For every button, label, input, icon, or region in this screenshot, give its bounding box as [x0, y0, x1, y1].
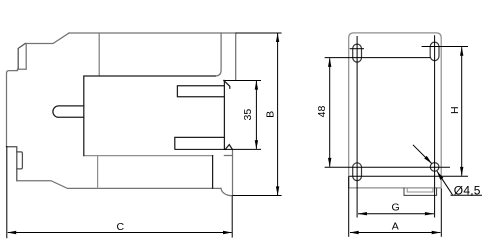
bottom-right fillet arc — [221, 188, 232, 195]
dim line H — [461, 47, 463, 176]
ext line 48 top / slot lower arc center — [325, 57, 431, 59]
ext line H bottom — [349, 175, 468, 177]
case edge right — [223, 81, 225, 150]
ext line C right — [231, 196, 233, 238]
ext line 48 bottom — [325, 166, 450, 168]
arrowheads 48 — [328, 58, 331, 67]
lower DIN clip tab — [7, 147, 17, 181]
lower terminal bent tip — [225, 145, 232, 150]
ext line A right — [440, 189, 442, 237]
svg-text:B: B — [264, 111, 276, 118]
leader arrowhead at hole — [424, 156, 432, 164]
right foot edge — [232, 150, 234, 195]
foot top edge — [224, 155, 232, 157]
centerline left column — [356, 36, 358, 218]
ext line H top — [422, 46, 468, 48]
upper terminal — [177, 86, 224, 97]
body top-left chamfer — [26, 33, 69, 43]
ext line B top — [236, 32, 282, 34]
body top edge — [69, 32, 236, 34]
ext line 35 top — [224, 80, 261, 82]
arrowheads B — [276, 33, 279, 42]
upper DIN clip tab — [18, 44, 27, 70]
svg-text:A: A — [392, 221, 399, 233]
svg-text:G: G — [392, 201, 400, 213]
bottom edge left part — [17, 181, 221, 189]
dim line C — [8, 232, 232, 234]
svg-text:48: 48 — [316, 106, 328, 118]
ext line A left — [348, 176, 350, 237]
plate outline — [349, 33, 442, 188]
coil plug prong — [53, 106, 84, 117]
arrowheads 35 — [255, 81, 258, 90]
upper-left step to left edge — [7, 69, 18, 146]
arrowheads G — [358, 212, 367, 215]
ext line 35 bottom / lower terminal bottom — [175, 148, 261, 150]
short tick top-left slot — [350, 48, 364, 50]
svg-text:H: H — [449, 106, 461, 114]
arrowheads C — [7, 231, 16, 234]
leader arrowhead from text side — [437, 171, 444, 180]
inner compartment wall — [215, 33, 221, 76]
ext line C left — [6, 146, 8, 238]
leader line to hole — [413, 145, 432, 164]
inner core block (upper) — [84, 76, 215, 156]
arrowheads H — [460, 47, 463, 56]
leader underline shoulder — [451, 194, 482, 196]
svg-text:35: 35 — [242, 109, 254, 121]
slot bottom-left — [353, 163, 362, 181]
dim line G — [358, 213, 434, 215]
inner vertical at top — [98, 33, 100, 76]
magnet frame top edge — [84, 155, 212, 157]
slot top-left — [353, 44, 362, 62]
svg-text:Ø4,5: Ø4,5 — [454, 184, 481, 198]
hole bottom-right (dia 4,5) — [430, 163, 439, 172]
bottom notch outer — [404, 188, 437, 196]
centerline right column — [434, 35, 436, 217]
body right edge — [235, 33, 237, 80]
ext line B bottom — [233, 195, 282, 197]
dim line 35 — [255, 81, 257, 149]
slot top-right — [430, 42, 439, 60]
magnet frame right edge — [212, 156, 214, 189]
inner vertical lower body — [97, 156, 99, 189]
dim line B — [277, 33, 279, 195]
dim line A — [350, 232, 440, 234]
svg-text:C: C — [117, 221, 125, 233]
bottom notch inner — [407, 188, 433, 192]
arrowheads A — [350, 231, 359, 234]
dim line 48 — [329, 58, 331, 167]
lower terminal — [175, 137, 225, 149]
